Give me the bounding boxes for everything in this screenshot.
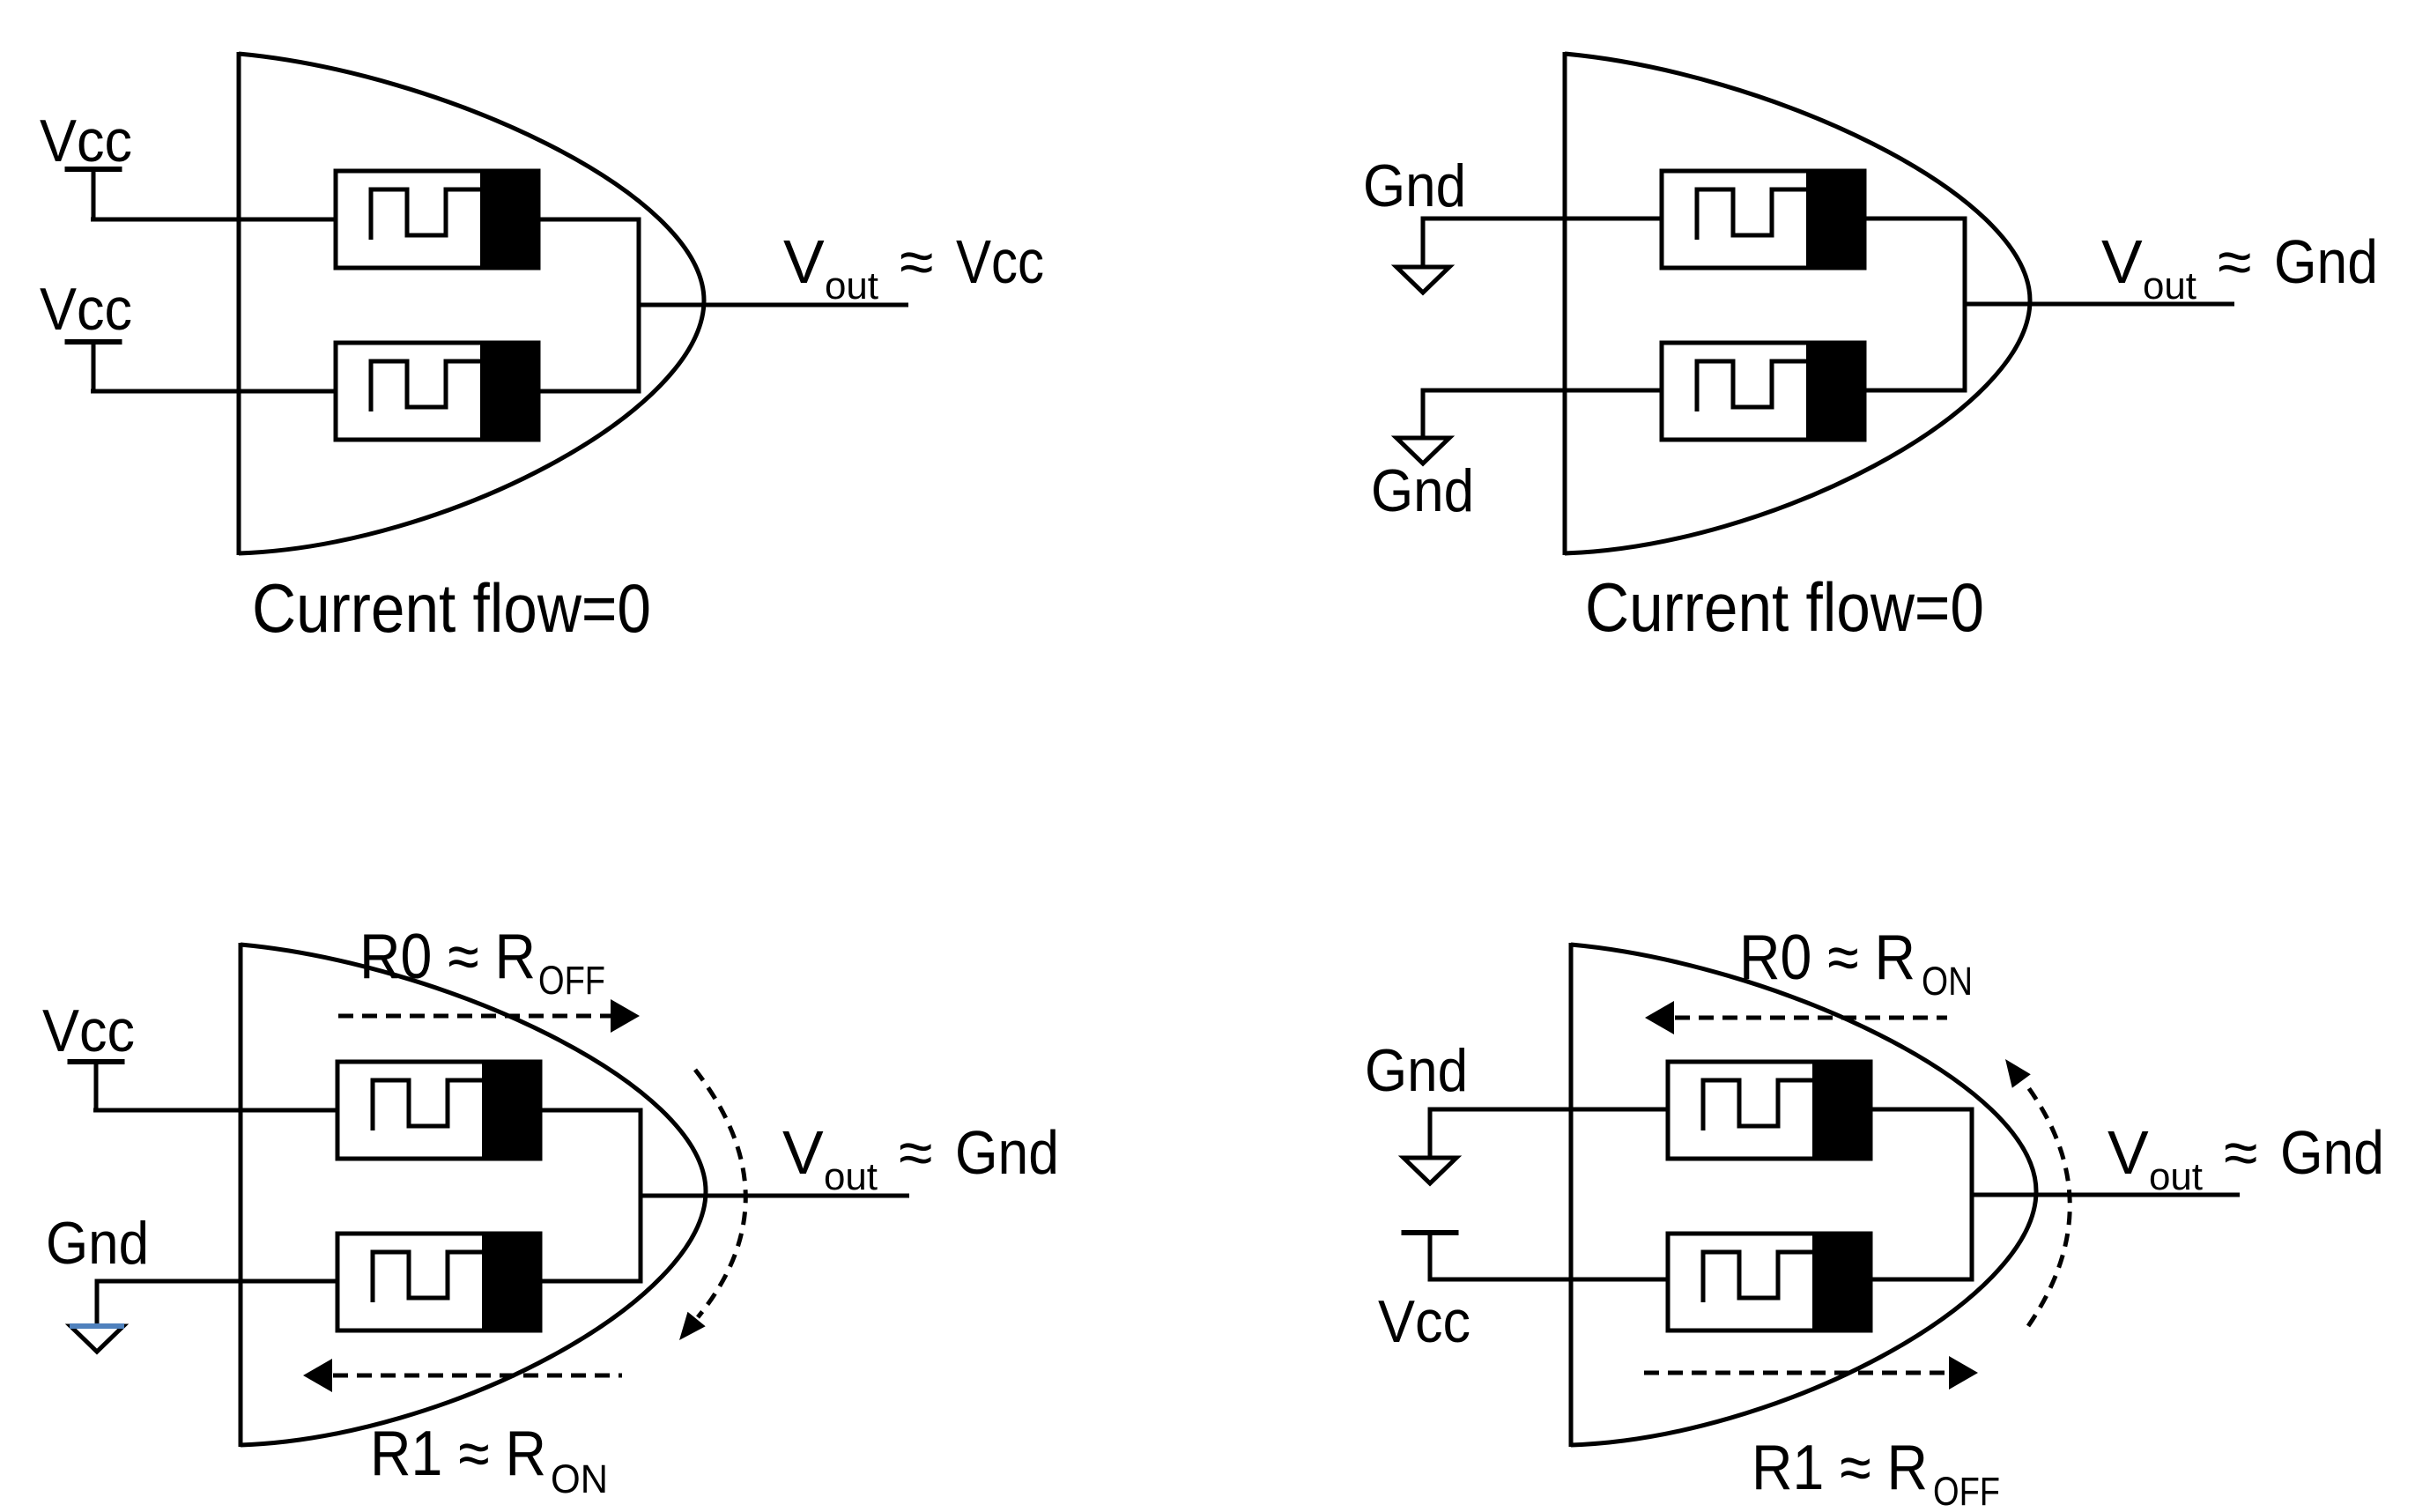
gate U4 body left edge [1569, 943, 1574, 1447]
memristor M3 body [1662, 169, 1864, 270]
memristor M6 body [337, 1232, 540, 1332]
svg-text:Gnd: Gnd [1365, 1037, 1468, 1104]
wire: M1 output to bus [538, 218, 641, 222]
ground symbol Gnd B (U3) [70, 1326, 124, 1352]
memristor M2 body [336, 341, 538, 441]
arrowhead of R1 current arrow (U3) [303, 1359, 332, 1392]
node Vout label (U3) [782, 1118, 1059, 1198]
svg-text:out: out [825, 264, 878, 308]
memristor M6 square-wave element [373, 1252, 484, 1302]
wire: input B to memristor M6 [95, 1279, 340, 1284]
svg-text:out: out [2149, 1155, 2203, 1198]
svg-text:Vcc: Vcc [42, 997, 135, 1064]
current arrow through R1 (U4, rightward) [1644, 1371, 1948, 1375]
memristor M5 body [337, 1060, 540, 1160]
node Vout label (U2) [2101, 227, 2378, 308]
gate U2 body left edge [1563, 52, 1567, 555]
memristor M7 body [1668, 1060, 1871, 1160]
label R0 approx R_OFF (U3 top memristor state) [359, 922, 605, 1003]
svg-text:Gnd: Gnd [1363, 152, 1466, 219]
svg-text:Vcc: Vcc [40, 276, 132, 343]
wire: input B to memristor M2 [91, 389, 337, 394]
wire: M8 output to bus [1871, 1278, 1974, 1282]
wire: Gnd B (U3) stem down from input wire [95, 1281, 100, 1326]
arrowhead of R0 current arrow (U4) [1645, 1001, 1674, 1034]
wire: Vout output (U3) [641, 1194, 909, 1198]
wire: Vout output (U2) [1965, 302, 2234, 307]
svg-text:R1 ≈ R: R1 ≈ R [370, 1419, 546, 1489]
arrowhead of R0 current arrow (U3) [611, 999, 640, 1033]
memristor M8 square-wave element [1703, 1252, 1814, 1302]
power bar symbol Vcc A (U1) [65, 167, 122, 172]
wire: output bus (U3) [639, 1108, 643, 1284]
wire: input A to memristor M3 [1421, 217, 1664, 221]
memristor M1 body [336, 169, 538, 270]
svg-text:≈: ≈ [899, 1118, 932, 1187]
wire: M2 output to bus [538, 389, 641, 394]
svg-text:out: out [824, 1155, 878, 1198]
memristor M8 body [1668, 1232, 1871, 1332]
wire: Vcc A (U1) stem down to input wire [92, 169, 96, 219]
svg-text:≈: ≈ [2224, 1118, 2257, 1187]
wire: input A to memristor M5 [93, 1108, 339, 1113]
ground symbol Gnd A (U4) [1404, 1158, 1456, 1183]
wire: input B to memristor M4 [1421, 389, 1664, 393]
node Vout label (U4) [2108, 1118, 2384, 1198]
svg-text:OFF: OFF [538, 958, 605, 1003]
circulating current arc (U4, counter-clockwise/up) [2026, 1084, 2070, 1326]
wire: Vcc B (U1) stem down to input wire [92, 342, 96, 391]
memristor M1 square-wave element [371, 189, 482, 240]
wire: Vout output (U1) [639, 303, 908, 308]
arrowhead of R1 current arrow (U4) [1949, 1356, 1978, 1390]
memristor M4 square-wave element [1697, 361, 1808, 411]
wire: Vcc B (U4) stem down to input wire [1428, 1233, 1433, 1279]
wire: M6 output to bus [540, 1279, 642, 1284]
svg-text:V: V [2101, 227, 2143, 296]
label R0 approx R_ON (U4 top memristor state) [1739, 923, 1973, 1004]
wire: output bus (U2) [1963, 217, 1967, 393]
wire: Vout output (U4) [1972, 1193, 2240, 1197]
arrowhead of circulating arc (U4) [2005, 1059, 2031, 1088]
svg-text:R1 ≈ R: R1 ≈ R [1752, 1433, 1928, 1503]
power bar symbol Vcc B (U1) [65, 339, 122, 345]
memristor M3 square-wave element [1697, 189, 1808, 240]
ground symbol Gnd B (U2) [1396, 438, 1449, 463]
svg-text:Current flow=0: Current flow=0 [1585, 568, 1984, 646]
gate U3 body left edge [239, 943, 243, 1447]
svg-text:≈: ≈ [2218, 227, 2251, 296]
wire: Gnd B (U2) stem down from input wire [1421, 390, 1426, 438]
gate U1 body curved edge [239, 54, 704, 553]
label R1 approx R_OFF (U4 bottom memristor state) [1752, 1433, 2000, 1512]
power bar symbol Vcc B (U4) [1402, 1230, 1459, 1235]
svg-text:Gnd: Gnd [955, 1118, 1059, 1187]
circulating current arc (U3, clockwise/down) [695, 1070, 745, 1317]
arrowhead of circulating arc (U3) [679, 1312, 706, 1340]
svg-text:Gnd: Gnd [1371, 457, 1474, 524]
svg-text:Gnd: Gnd [2280, 1118, 2384, 1187]
svg-text:V: V [783, 227, 825, 296]
svg-text:out: out [2143, 264, 2196, 308]
memristor M4 body [1662, 341, 1864, 441]
wire: M4 output to bus [1864, 389, 1967, 393]
current arrow through R0 (U3, rightward) [338, 1014, 611, 1019]
svg-text:Current flow=0: Current flow=0 [252, 569, 651, 647]
power bar symbol Vcc A (U3) [68, 1059, 125, 1064]
gate U2 body curved edge [1565, 54, 2030, 553]
svg-text:Gnd: Gnd [46, 1210, 149, 1277]
wire: Vcc A (U3) stem down to input wire [94, 1062, 99, 1110]
wire: input A to memristor M7 [1428, 1108, 1670, 1112]
memristor M5 square-wave element [373, 1080, 484, 1130]
gate U1 body left edge [237, 52, 241, 555]
svg-text:V: V [2108, 1118, 2149, 1187]
current arrow through R0 (U4, leftward) [1675, 1016, 1947, 1020]
wire: output bus (U1) [637, 218, 641, 394]
wire: input A to memristor M1 [91, 218, 337, 222]
svg-text:ON: ON [1922, 959, 1973, 1004]
svg-text:ON: ON [551, 1456, 608, 1501]
svg-text:Vcc: Vcc [956, 227, 1044, 296]
wire: M7 output to bus [1871, 1108, 1974, 1112]
gate U3 body curved edge [241, 945, 706, 1445]
ground symbol Gnd A (U2) [1396, 267, 1449, 293]
node Vout label (U1) [783, 227, 1044, 308]
label R1 approx R_ON (U3 bottom memristor state) [370, 1419, 608, 1501]
wire: Gnd A (U4) stem down from input wire [1428, 1109, 1433, 1158]
memristor M2 square-wave element [371, 361, 482, 411]
wire: output bus (U4) [1970, 1108, 1974, 1282]
svg-text:OFF: OFF [1933, 1469, 2000, 1512]
wire: M3 output to bus [1864, 217, 1967, 221]
svg-text:Vcc: Vcc [40, 107, 132, 174]
wire: M5 output to bus [540, 1108, 642, 1113]
svg-text:V: V [782, 1118, 824, 1187]
svg-text:R0 ≈ R: R0 ≈ R [1739, 923, 1915, 993]
gate U4 body curved edge [1571, 945, 2036, 1445]
svg-text:Gnd: Gnd [2274, 227, 2378, 296]
wire: input B to memristor M8 [1428, 1278, 1670, 1282]
current arrow through R1 (U3, leftward) [333, 1374, 622, 1378]
svg-text:R0 ≈ R: R0 ≈ R [359, 922, 536, 992]
svg-text:Vcc: Vcc [1378, 1288, 1470, 1355]
svg-text:≈: ≈ [900, 227, 933, 296]
wire: Gnd A (U2) stem down from input wire [1421, 219, 1426, 267]
memristor M7 square-wave element [1703, 1080, 1814, 1130]
